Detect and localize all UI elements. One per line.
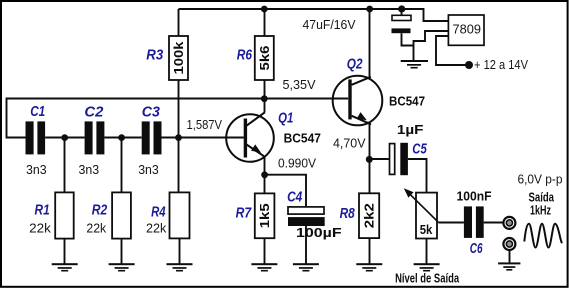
- svg-text:22k: 22k: [86, 220, 106, 235]
- svg-text:1kHz: 1kHz: [530, 203, 551, 218]
- svg-text:3n3: 3n3: [138, 162, 159, 177]
- ground under C4: [293, 263, 319, 271]
- wire Q1 collector to Q2 base: [265, 98, 349, 100]
- wire C6 to output jack: [484, 222, 504, 224]
- wire node1 to R1: [64, 138, 66, 193]
- potentiometer P1 5k body: [416, 193, 437, 239]
- wire potentiometer to ground: [426, 239, 428, 264]
- wire 7809 input pin to supply: [436, 36, 465, 65]
- wire Q2 collector to rail: [369, 9, 371, 77]
- svg-text:R4: R4: [151, 205, 166, 221]
- svg-text:1,587V: 1,587V: [187, 117, 223, 132]
- svg-text:R1: R1: [35, 202, 50, 218]
- svg-text:0.990V: 0.990V: [278, 156, 316, 171]
- ground near 7809: [401, 60, 428, 69]
- svg-text:22k: 22k: [146, 220, 167, 235]
- ground under R2: [109, 263, 135, 271]
- svg-text:3n3: 3n3: [26, 162, 47, 177]
- svg-text:7809: 7809: [453, 22, 482, 37]
- wire R8 to ground: [369, 238, 371, 264]
- node rail-Q2 collector: [366, 6, 373, 13]
- wire feedback from Q1 collector to C1: [7, 99, 265, 138]
- output jack J1 ground: [503, 238, 515, 250]
- capacitor C1 plates: [26, 121, 46, 154]
- wire C3 to Q1 base: [162, 137, 244, 139]
- svg-text:R6: R6: [237, 48, 253, 64]
- svg-text:C1: C1: [30, 104, 45, 120]
- node Q1 emitter: [261, 171, 268, 178]
- wire Q1 emitter to node: [264, 156, 266, 175]
- capacitor C4 electrolytic plates: [288, 207, 325, 226]
- wire C5 to potentiometer: [408, 159, 427, 193]
- capacitor C5 plates: [390, 143, 408, 175]
- svg-text:3n3: 3n3: [79, 162, 100, 177]
- wire C4 to ground: [305, 226, 307, 264]
- ground under R7: [251, 263, 277, 271]
- svg-text:Nível de Saída: Nível de Saída: [395, 271, 460, 286]
- svg-text:Q1: Q1: [278, 110, 293, 126]
- wire R3 top lead: [178, 9, 180, 36]
- node rail-47uF: [398, 5, 405, 12]
- svg-text:1k5: 1k5: [257, 203, 272, 228]
- wire 7809 ground pin: [414, 31, 449, 60]
- svg-text:BC547: BC547: [389, 94, 425, 109]
- wire node3 to R4: [178, 138, 180, 193]
- transistor Q1: [226, 112, 274, 161]
- svg-text:R8: R8: [340, 206, 356, 222]
- wire Q2 emitter node to R8: [369, 160, 371, 194]
- node C3-R3-R4 base: [175, 134, 182, 141]
- node rail-R6: [261, 6, 268, 13]
- regulator U1 7809 body: [448, 15, 484, 45]
- wire R7 to ground: [264, 238, 266, 264]
- wire R2 to ground: [121, 239, 123, 264]
- svg-text:C4: C4: [287, 189, 302, 205]
- transistor Q2: [333, 76, 383, 126]
- node Q1 collector: [261, 95, 268, 102]
- node C2-C3-R2: [118, 134, 125, 141]
- ground under potentiometer: [414, 263, 440, 271]
- svg-text:100µF: 100µF: [296, 225, 342, 240]
- wire C1 to C2: [45, 137, 85, 139]
- svg-text:C3: C3: [142, 104, 160, 120]
- svg-text:C6: C6: [470, 241, 483, 257]
- resistor R4 body: [170, 192, 190, 238]
- svg-text:R3: R3: [146, 48, 163, 64]
- ground under R8: [356, 263, 382, 271]
- output jack J1 signal: [503, 217, 515, 229]
- capacitor C6 plates: [464, 206, 484, 238]
- wire lower jack to ground: [509, 251, 511, 263]
- resistor R6 body: [255, 36, 274, 80]
- wire wiper to C6: [438, 222, 464, 224]
- svg-text:C2: C2: [84, 104, 103, 120]
- svg-text:100k: 100k: [171, 41, 186, 75]
- svg-text:1µF: 1µF: [397, 122, 424, 137]
- svg-text:R7: R7: [236, 206, 252, 222]
- wire 47uF cap top lead: [401, 9, 403, 15]
- svg-text:100nF: 100nF: [457, 189, 492, 204]
- ground under output jack: [498, 262, 520, 270]
- ground under R4: [167, 263, 193, 271]
- wire Q2 emitter down: [369, 124, 371, 160]
- capacitor C2 plates: [85, 121, 105, 154]
- node +12V supply terminal: [465, 61, 473, 69]
- resistor R7 body: [255, 193, 275, 238]
- svg-text:22k: 22k: [29, 220, 51, 235]
- wire 47uF cap bottom to ground net: [402, 33, 414, 45]
- wire R4 to ground: [179, 238, 181, 263]
- resistor R8 body: [359, 193, 379, 238]
- svg-text:2k2: 2k2: [362, 203, 377, 228]
- wire Q2 emitter node to C5: [370, 158, 390, 160]
- svg-text:+ 12 a 14V: + 12 a 14V: [474, 57, 528, 72]
- svg-text:6,0V p-p: 6,0V p-p: [518, 172, 563, 187]
- svg-text:BC547: BC547: [284, 131, 321, 146]
- svg-text:Q2: Q2: [347, 56, 363, 72]
- resistor R3 body: [169, 36, 188, 80]
- wire Q1 emitter node to R7: [264, 175, 266, 193]
- wire 9V rail: [179, 9, 449, 21]
- svg-text:R2: R2: [92, 202, 108, 218]
- svg-text:5k: 5k: [420, 222, 433, 237]
- wire Q1 collector: [264, 99, 266, 113]
- wire node2 to R2: [121, 138, 123, 193]
- potentiometer wiper arrow: [404, 188, 439, 222]
- resistor R1 body: [55, 192, 73, 238]
- svg-text:47uF/16V: 47uF/16V: [303, 17, 356, 32]
- node Q2 emitter: [366, 156, 373, 163]
- wire R1 to ground: [64, 239, 66, 264]
- svg-text:5k6: 5k6: [257, 46, 272, 71]
- ground under R1: [52, 263, 78, 271]
- capacitor C3 plates: [142, 121, 162, 154]
- capacitor 47uF electrolytic plates: [392, 15, 412, 33]
- wire R3 bottom to base node: [178, 80, 180, 138]
- wire Q1 emitter node to C4: [265, 175, 306, 207]
- wire R6 top lead: [264, 9, 266, 36]
- wire C2 to C3: [104, 137, 141, 139]
- svg-text:5,35V: 5,35V: [283, 77, 316, 92]
- svg-text:C5: C5: [412, 142, 427, 158]
- svg-text:4,70V: 4,70V: [333, 135, 366, 150]
- node C1-C2-R1: [61, 134, 68, 141]
- wire R6 bottom to Q1 collector node: [264, 80, 266, 99]
- sine wave output symbol: [524, 224, 562, 248]
- resistor R2 body: [112, 192, 131, 238]
